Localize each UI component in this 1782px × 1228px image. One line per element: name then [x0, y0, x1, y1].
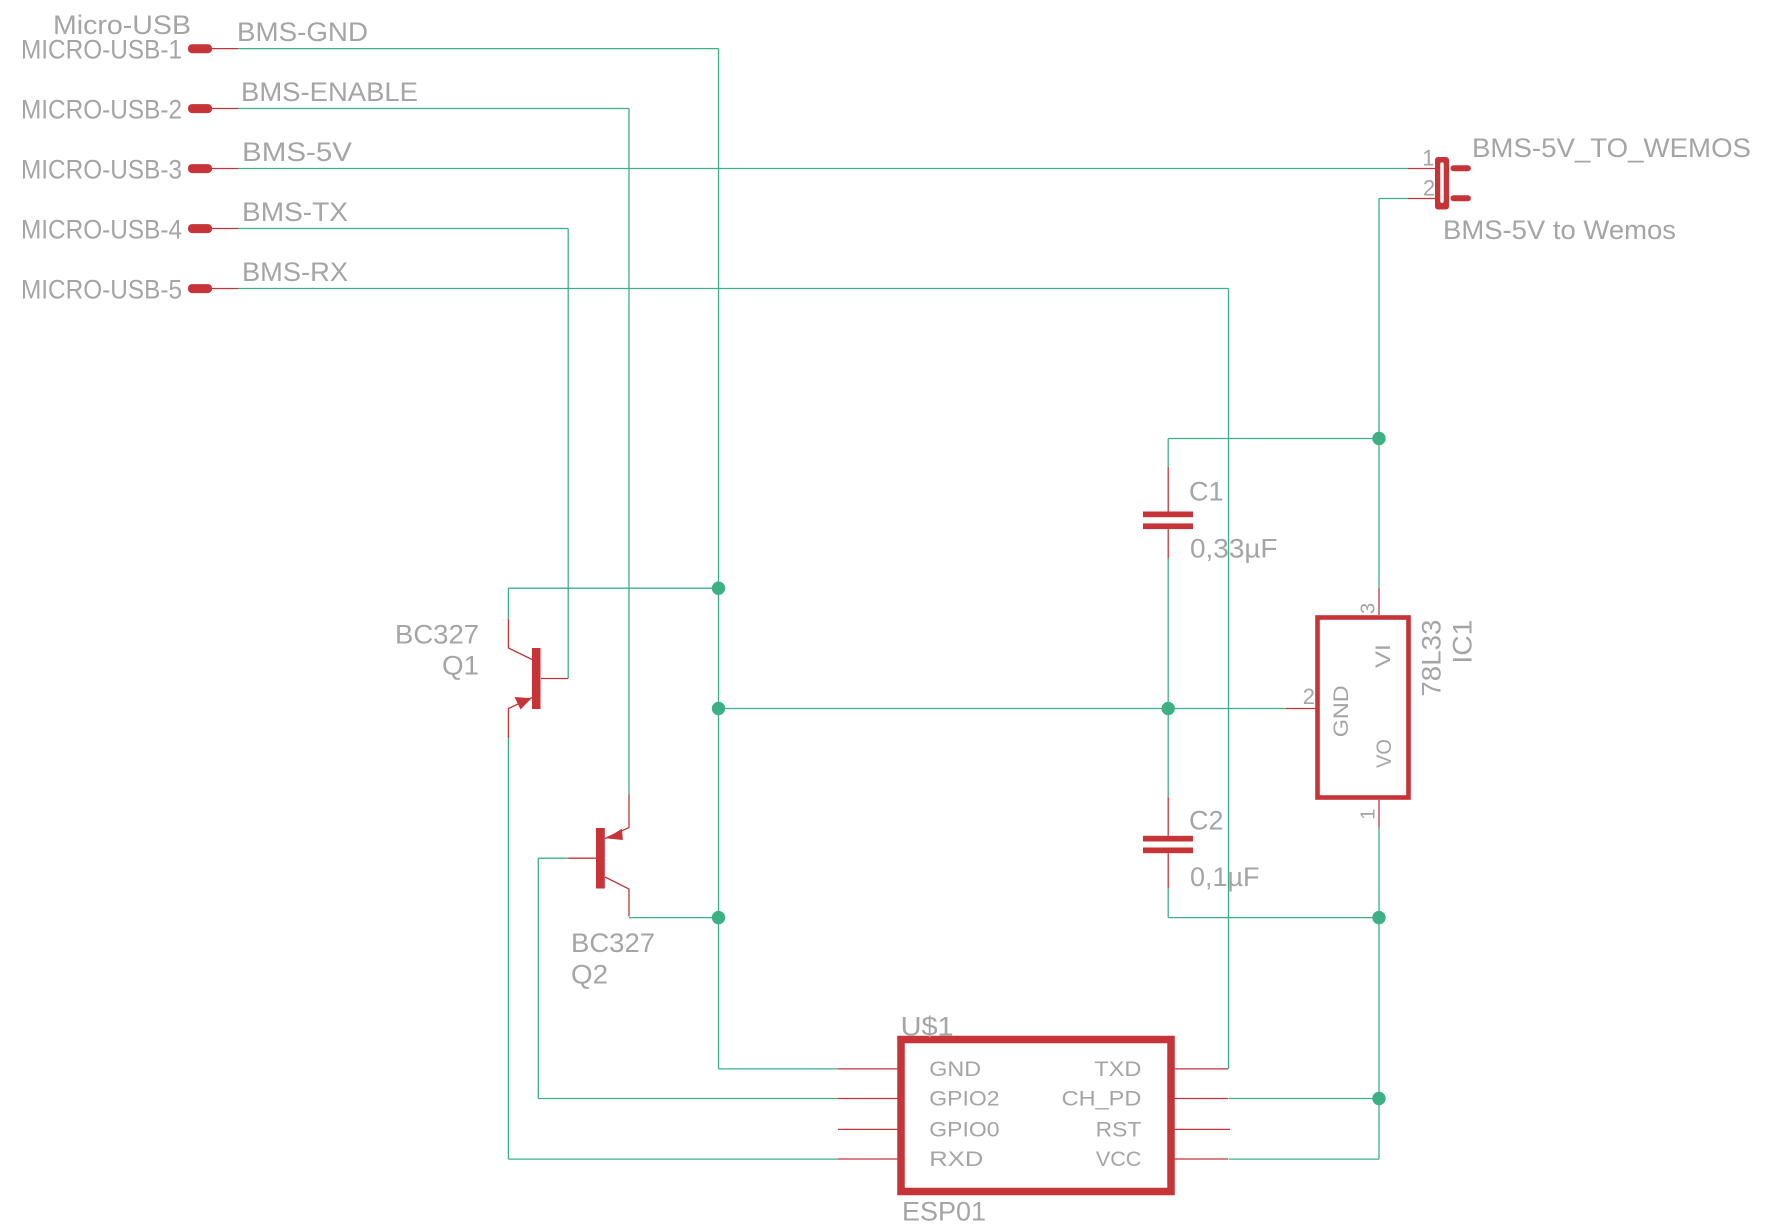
wire BMS-GND vertical x718 [718, 49, 720, 1069]
svg-text:BMS-5V_TO_WEMOS: BMS-5V_TO_WEMOS [1472, 133, 1751, 163]
svg-text:ESP01: ESP01 [902, 1197, 986, 1227]
svg-text:MICRO-USB-2: MICRO-USB-2 [21, 95, 182, 125]
wire TXD vertical x1228 [1228, 289, 1230, 1069]
svg-text:VI: VI [1371, 644, 1395, 668]
svg-text:MICRO-USB-3: MICRO-USB-3 [21, 155, 182, 185]
svg-text:GND: GND [1329, 685, 1353, 737]
junction x1379 y917 [1372, 911, 1385, 924]
wire BMS-5V horizontal [238, 168, 1408, 170]
svg-text:BC327: BC327 [395, 619, 479, 649]
svg-text:0,1µF: 0,1µF [1190, 862, 1260, 892]
pin pad MICRO-USB-4 [188, 224, 212, 233]
svg-text:GPIO2: GPIO2 [929, 1087, 999, 1111]
svg-text:Q2: Q2 [571, 959, 608, 989]
IC1 pin 1 stub [1378, 800, 1380, 828]
wire Q1 collector horizontal y588 [508, 587, 718, 589]
wire C2 bottom horizontal [1168, 917, 1379, 919]
svg-text:TXD: TXD [1094, 1057, 1141, 1081]
wire connector pin2 horizontal [1379, 198, 1408, 200]
wire BMS-TX horizontal [238, 228, 568, 230]
svg-text:2: 2 [1303, 684, 1315, 709]
wire VCC horizontal [1229, 1158, 1380, 1160]
svg-text:VO: VO [1372, 739, 1396, 768]
svg-text:MICRO-USB-1: MICRO-USB-1 [21, 35, 182, 65]
svg-text:BMS-GND: BMS-GND [237, 17, 368, 47]
svg-text:IC1: IC1 [1447, 620, 1477, 664]
svg-text:C1: C1 [1189, 477, 1224, 507]
svg-text:BMS-5V to Wemos: BMS-5V to Wemos [1443, 215, 1676, 245]
wire C1 bottom vertical [1167, 558, 1169, 709]
svg-text:U$1: U$1 [901, 1012, 954, 1042]
wire Q2 collector horizontal y917 [629, 917, 719, 919]
junction x1379 y1098 [1372, 1092, 1385, 1105]
ESP01 pin stub RXD [838, 1158, 898, 1160]
ESP01 pin stub GND [838, 1068, 898, 1070]
wire Q1 base vertical x568 [567, 229, 569, 679]
pin pad MICRO-USB-1 [188, 44, 212, 53]
wire VI vertical x1379 [1378, 199, 1380, 589]
wire C2 top vertical [1167, 709, 1169, 798]
junction x718 y588 [712, 582, 725, 595]
svg-text:1: 1 [1422, 145, 1434, 170]
svg-text:BMS-TX: BMS-TX [242, 197, 348, 227]
connector pin1 red stub [1408, 168, 1435, 170]
IC1 pin 2 stub [1286, 708, 1316, 710]
wire BMS-GND horizontal [238, 48, 719, 50]
voltage regulator IC1 78L33 box [1318, 618, 1409, 798]
wire RXD row horizontal [508, 1158, 838, 1160]
capacitor C1 [1143, 467, 1193, 558]
junction x1379 y438 [1372, 432, 1385, 445]
junction x1168 y708 [1162, 702, 1175, 715]
wire Q1 collector vertical [507, 588, 509, 619]
pin pad MICRO-USB-3 [188, 164, 212, 173]
svg-text:GND: GND [929, 1057, 981, 1081]
svg-text:1: 1 [1358, 809, 1380, 820]
pin pad MICRO-USB-2 [188, 104, 212, 113]
wire GND row y708 [719, 708, 1287, 710]
svg-text:BMS-RX: BMS-RX [242, 257, 348, 287]
transistor Q1 [508, 619, 568, 738]
svg-text:MICRO-USB-4: MICRO-USB-4 [21, 215, 182, 245]
svg-text:0,33µF: 0,33µF [1190, 534, 1278, 564]
pin stub MICRO-USB-5 [212, 288, 238, 290]
wire Q1 emitter vertical x508 [507, 738, 509, 1159]
wire BMS-RX horizontal [238, 288, 1229, 290]
wire Q2 emitter vertical x629 [628, 109, 630, 795]
svg-text:2: 2 [1423, 176, 1435, 201]
ESP01 pin stub VCC [1174, 1158, 1228, 1160]
svg-text:BC327: BC327 [571, 928, 655, 958]
wire GND row to ESP01 [719, 1068, 839, 1070]
ESP01 pin stub GPIO2 [838, 1098, 898, 1100]
svg-text:RXD: RXD [929, 1147, 983, 1171]
pin pad MICRO-USB-5 [188, 284, 212, 293]
wire Q2 base vertical x538 [537, 858, 539, 1098]
svg-text:MICRO-USB-5: MICRO-USB-5 [21, 275, 182, 305]
IC1 pin 3 stub [1378, 588, 1380, 615]
module U$1 ESP01 box [901, 1040, 1171, 1192]
wire VO vertical x1379 [1378, 828, 1380, 1160]
pin stub MICRO-USB-3 [212, 168, 238, 170]
svg-text:C2: C2 [1189, 806, 1224, 836]
ESP01 pin stub GPIO0 [838, 1128, 898, 1130]
pin stub MICRO-USB-4 [212, 228, 238, 230]
wire C1 top vertical [1167, 439, 1169, 468]
pin stub MICRO-USB-1 [212, 48, 238, 50]
svg-text:78L33: 78L33 [1417, 620, 1447, 697]
ESP01 pin stub RST [1174, 1128, 1230, 1130]
wire C1 top horizontal [1168, 438, 1379, 440]
pin stub MICRO-USB-2 [212, 108, 238, 110]
wire C2 bottom vertical [1167, 888, 1169, 918]
junction x718 y917 [712, 911, 725, 924]
svg-text:VCC: VCC [1096, 1147, 1141, 1171]
svg-text:3: 3 [1358, 603, 1380, 614]
svg-text:Q1: Q1 [442, 651, 479, 681]
wire GPIO2 row horizontal [538, 1098, 838, 1100]
svg-text:GPIO0: GPIO0 [929, 1117, 999, 1141]
connector BMS-5V_TO_WEMOS body [1435, 157, 1471, 210]
svg-text:CH_PD: CH_PD [1062, 1087, 1142, 1111]
svg-text:BMS-ENABLE: BMS-ENABLE [241, 77, 418, 107]
connector pin2 red stub [1408, 198, 1435, 200]
capacitor C2 [1143, 797, 1193, 888]
transistor Q2 [568, 795, 629, 917]
svg-text:BMS-5V: BMS-5V [242, 137, 352, 167]
junction x718 y708 [712, 702, 725, 715]
ESP01 pin stub CH_PD [1174, 1098, 1228, 1100]
svg-text:RST: RST [1096, 1117, 1142, 1141]
wire Q2 base horizontal [538, 857, 568, 859]
wire CH_PD horizontal [1229, 1098, 1380, 1100]
wire BMS-ENABLE horizontal [238, 108, 629, 110]
ESP01 pin stub TXD [1174, 1068, 1228, 1070]
